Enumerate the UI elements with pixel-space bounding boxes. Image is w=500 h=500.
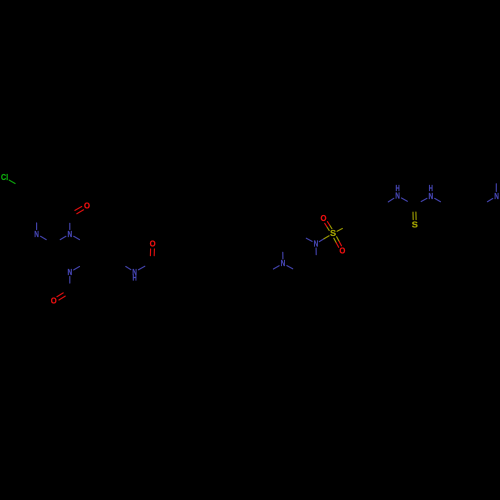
svg-text:H: H xyxy=(132,275,136,283)
svg-text:S: S xyxy=(330,229,336,238)
svg-text:S: S xyxy=(412,220,418,229)
svg-text:N: N xyxy=(67,267,72,277)
svg-text:O: O xyxy=(51,296,57,305)
svg-text:O: O xyxy=(150,239,156,248)
svg-text:H: H xyxy=(395,185,399,193)
svg-text:O: O xyxy=(339,246,345,255)
svg-text:N: N xyxy=(314,239,319,249)
svg-text:O: O xyxy=(84,201,90,210)
svg-text:N: N xyxy=(494,191,499,201)
svg-text:Cl: Cl xyxy=(1,172,8,182)
svg-text:O: O xyxy=(320,214,326,223)
svg-text:H: H xyxy=(429,185,433,193)
svg-text:N: N xyxy=(281,258,286,268)
svg-text:N: N xyxy=(34,229,39,239)
svg-text:N: N xyxy=(67,229,72,239)
